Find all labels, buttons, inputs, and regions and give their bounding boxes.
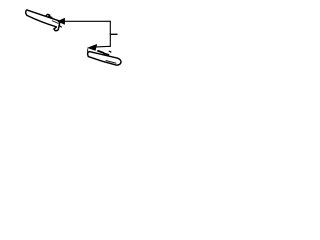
moulding strip 1 crease near right end [52,21,58,24]
moulding strip 2 (lower right) outline [88,52,121,66]
strip 2 left cap riser (under arrow) [87,49,89,53]
arrow 1 shaft / leader wire [64,20,110,22]
clip tab 2 small upper nib [109,50,111,53]
moulding strip 2 crease near right end [106,61,116,64]
leader wire bottom segment [96,45,110,48]
clip tab on strip 1 [46,14,52,17]
leader wire vertical segment [109,21,111,46]
arrow 1 head (points left at strip 1) [58,18,65,24]
arrow 2 head (points left-down at strip 2) [88,44,97,50]
strip 1 end tab [59,25,62,27]
moulding strip 1 (upper left) outline [26,10,60,31]
clip tab on strip 2 [98,51,109,55]
branch stub tick [110,33,117,35]
